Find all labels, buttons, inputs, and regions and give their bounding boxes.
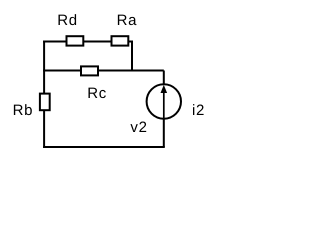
- svg-text:i2: i2: [192, 102, 205, 119]
- svg-text:Ra: Ra: [117, 12, 138, 29]
- svg-text:v2: v2: [130, 119, 147, 136]
- svg-text:Rb: Rb: [13, 102, 34, 119]
- svg-text:Rd: Rd: [57, 12, 78, 29]
- svg-text:Rc: Rc: [87, 85, 107, 102]
